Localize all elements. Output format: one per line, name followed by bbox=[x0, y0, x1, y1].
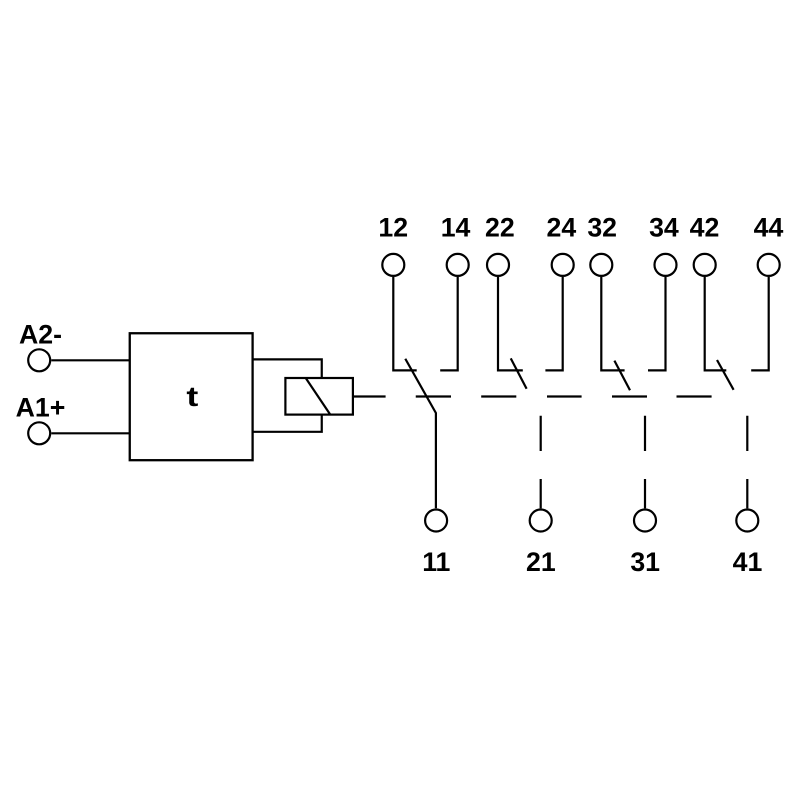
contact arm CO4 bbox=[717, 360, 734, 390]
linkage dashed drop CO4 bbox=[746, 416, 748, 509]
wire terminal 44 NO contact bbox=[751, 277, 769, 370]
timer box U1 bbox=[130, 333, 253, 460]
terminal 14 bbox=[447, 254, 469, 276]
terminal 41 bbox=[736, 510, 758, 532]
terminal 34 bbox=[655, 254, 677, 276]
terminal 12 bbox=[382, 254, 404, 276]
svg-text:42: 42 bbox=[690, 213, 720, 243]
terminal A1 bbox=[28, 422, 50, 444]
terminal 21 bbox=[530, 510, 552, 532]
wire terminal 42 NC contact bbox=[705, 277, 727, 370]
svg-text:21: 21 bbox=[526, 547, 556, 577]
contact arm CO2 bbox=[511, 358, 527, 388]
terminal 11 bbox=[425, 510, 447, 532]
linkage dashed drop CO2 bbox=[540, 416, 542, 509]
svg-text:31: 31 bbox=[630, 547, 660, 577]
mechanical linkage dashed line bbox=[416, 395, 712, 397]
svg-text:12: 12 bbox=[378, 213, 408, 243]
svg-text:44: 44 bbox=[754, 213, 784, 243]
wire A1 to timer box bbox=[51, 432, 129, 434]
svg-text:14: 14 bbox=[441, 213, 471, 243]
svg-text:24: 24 bbox=[547, 213, 577, 243]
wire terminal 22 NC contact bbox=[498, 277, 523, 370]
wire terminal 12 NC contact bbox=[393, 277, 416, 370]
terminal 42 bbox=[694, 254, 716, 276]
terminal 31 bbox=[634, 510, 656, 532]
contact arm CO3 bbox=[614, 361, 630, 391]
wire terminal 32 NC contact bbox=[601, 277, 624, 370]
terminal 32 bbox=[590, 254, 612, 276]
wire terminal 34 NO contact bbox=[648, 277, 666, 370]
terminal A2 bbox=[28, 349, 50, 371]
wire box to coil top bbox=[253, 359, 322, 378]
terminal 22 bbox=[487, 254, 509, 276]
svg-text:11: 11 bbox=[422, 547, 450, 577]
terminal 24 bbox=[552, 254, 574, 276]
svg-text:A1+: A1+ bbox=[16, 393, 66, 423]
wire terminal 14 NO contact bbox=[440, 277, 458, 370]
linkage dashed drop CO3 bbox=[644, 416, 646, 509]
contact arm CO1 bbox=[405, 359, 436, 509]
terminal 44 bbox=[758, 254, 780, 276]
svg-text:32: 32 bbox=[587, 213, 617, 243]
wire terminal 24 NO contact bbox=[545, 277, 562, 370]
svg-text:t: t bbox=[186, 381, 198, 412]
svg-text:A2-: A2- bbox=[19, 320, 62, 350]
coil diagonal bbox=[306, 378, 330, 414]
wire box to coil bottom bbox=[253, 415, 322, 432]
relay coil K1 bbox=[285, 378, 353, 415]
wire A2 to timer box bbox=[51, 359, 129, 361]
wire coil output bbox=[353, 395, 386, 397]
svg-text:41: 41 bbox=[733, 547, 763, 577]
svg-text:34: 34 bbox=[649, 213, 679, 243]
svg-text:22: 22 bbox=[485, 213, 515, 243]
